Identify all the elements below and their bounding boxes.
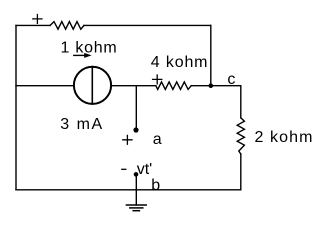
svg-text:1 kohm: 1 kohm <box>61 39 118 56</box>
svg-text:b: b <box>151 177 160 194</box>
svg-text:vt': vt' <box>137 161 153 178</box>
svg-text:4 kohm: 4 kohm <box>151 54 209 71</box>
svg-text:2 kohm: 2 kohm <box>255 129 314 146</box>
svg-text:a: a <box>153 131 162 148</box>
svg-text:c: c <box>227 71 235 88</box>
svg-text:3 mA: 3 mA <box>60 116 103 133</box>
